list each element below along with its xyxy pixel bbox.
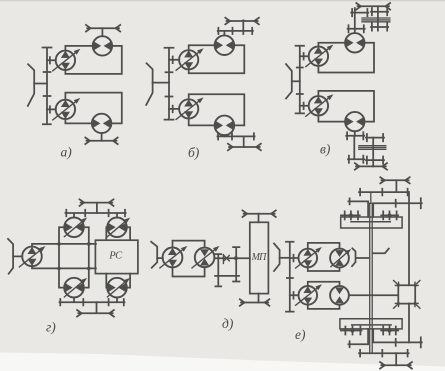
- wire hydraulic loop 1 fig e: [308, 243, 340, 271]
- svg-text:б): б): [188, 145, 200, 160]
- wire motor M1 to final drive fig v: [354, 29, 356, 33]
- gear line 3 (top planetary) fig e: [348, 198, 368, 217]
- svg-text:МП: МП: [251, 252, 268, 263]
- output half-shafts (top) fig b: [225, 18, 259, 25]
- wire input to gear shaft fig a: [34, 83, 47, 85]
- motor M (variable) fig d: [192, 247, 219, 268]
- return line (bottom bus) fig g: [32, 266, 96, 268]
- input coupling fork (engine) fig a: [28, 64, 34, 106]
- wire shaft to pump P2 fig b: [169, 106, 179, 113]
- input coupling fork (engine) fig e: [274, 244, 280, 272]
- motor M1 fig a: [93, 36, 112, 55]
- wire hydraulic loop 1 fig b: [189, 45, 245, 73]
- svg-text:д): д): [222, 316, 234, 331]
- gear shaft (input reduction) fig a: [43, 48, 52, 125]
- planet gear cluster left (top) fig e: [341, 211, 360, 219]
- motor M1 (variable) fig g: [64, 218, 86, 238]
- output half-shafts (bottom) fig e: [380, 362, 412, 369]
- gear reducer (bottom) fig b: [217, 133, 254, 147]
- gear shaft fig b: [165, 48, 174, 120]
- wire motor M2 to flow divider fig g: [106, 227, 130, 240]
- planet gear cluster right (top) fig e: [381, 211, 398, 219]
- output half-shafts (top) fig d: [243, 210, 276, 217]
- output half-shafts (bottom) fig v: [355, 163, 387, 170]
- wire hydraulic loop 2 fig a: [65, 93, 121, 124]
- wire hydraulic loop 1 fig a: [65, 46, 121, 74]
- output half-shafts (top) fig v: [356, 3, 390, 10]
- mechanical gearbox MP fig d: [250, 222, 269, 293]
- wire branches to motor M3 fig g: [59, 268, 89, 287]
- svg-text:е): е): [295, 327, 306, 342]
- gear line 2 (bottom planetary) fig e: [373, 329, 422, 348]
- motor M1 fig b: [215, 35, 235, 55]
- wire shaft to pump P2 fig a: [47, 106, 56, 112]
- axle gears (bottom) fig g: [60, 297, 125, 305]
- wire shaft to pump P1 fig b: [169, 57, 179, 64]
- planet gear cluster left (bottom) fig e: [341, 327, 362, 335]
- wire input to gear shaft fig b: [153, 82, 169, 84]
- final drive gear train (top) fig v: [348, 6, 390, 32]
- svg-text:а): а): [61, 145, 73, 160]
- motor M2 output shaft to clutch fig e: [349, 294, 397, 296]
- pump P (variable) fig g: [19, 247, 44, 267]
- input coupling fork (engine) fig g: [8, 239, 13, 274]
- wire motor M2 to gearbox fig b: [223, 135, 225, 136]
- top scan edge: [0, 0, 445, 1]
- wire hydraulic loop 1 fig v: [318, 43, 374, 73]
- pump P2 (variable) fig b: [176, 98, 203, 119]
- gear shaft fig e: [286, 242, 294, 312]
- wire hydraulic loop 2 fig b: [189, 94, 245, 125]
- wire shaft to pump P1 fig a: [47, 57, 56, 63]
- page bottom white edge: [0, 353, 445, 371]
- wire shaft to pump P1 fig e: [290, 255, 299, 262]
- input coupling fork (engine) fig b: [146, 63, 152, 105]
- final drive gear train (bottom) fig v: [346, 132, 386, 166]
- wire gearbox to bottom output fig d: [258, 294, 260, 303]
- wire hydraulic loop 2 fig v: [318, 91, 374, 122]
- motor M2 fig e: [330, 286, 349, 305]
- gear line 1 (bottom planetary) fig e: [359, 350, 409, 357]
- output half-shafts (bottom) fig g: [77, 302, 114, 316]
- wire input to gear shaft fig e: [280, 257, 290, 259]
- wire shaft to pump P2 fig v: [300, 103, 309, 110]
- wire gear line to bottom output fig e: [395, 353, 397, 365]
- motor M2 (variable) fig g: [107, 218, 129, 238]
- central hollow shaft fig e: [370, 192, 373, 353]
- motor M2 fig b: [215, 116, 235, 136]
- planetary carrier box (top) fig e: [341, 217, 402, 228]
- junction node dots fig g: [57, 242, 90, 270]
- svg-text:РС: РС: [108, 250, 123, 261]
- wire input to pump fig d: [157, 257, 163, 259]
- wire gearbox to top output fig d: [258, 214, 260, 223]
- pump P2 (variable) fig v: [306, 95, 333, 116]
- pump P1 (variable) fig a: [53, 50, 80, 71]
- svg-text:г): г): [46, 320, 56, 335]
- wire motor M1 to gearbox fig b: [223, 31, 225, 36]
- wire motor M1 to output fig a: [101, 28, 103, 36]
- flow divider box RS fig g: [95, 240, 137, 273]
- motor M2 fig v: [345, 112, 364, 131]
- pump P2 (variable) fig e: [296, 285, 321, 305]
- pump P2 (variable) fig a: [53, 99, 80, 120]
- motor output shaft fig d: [214, 257, 249, 259]
- output half-shafts (bottom) fig d: [240, 299, 270, 306]
- gear shaft 2 fig d: [233, 247, 239, 281]
- output half-shafts (bottom) fig b: [228, 144, 261, 151]
- gear shaft 1 fig d: [215, 254, 221, 286]
- input coupling fork (engine) fig v: [286, 64, 292, 98]
- output half-shafts (top) fig g: [80, 199, 114, 213]
- wire branches to motor M1 fig g: [59, 227, 89, 268]
- friction clutch block fig e: [394, 281, 420, 309]
- link to hollow shaft fig e: [373, 249, 389, 254]
- junction node fig d: [234, 256, 238, 260]
- motor M2 fig a: [92, 114, 111, 133]
- gear shaft fig v: [296, 46, 304, 114]
- wire output to gear line 1 fig e: [395, 180, 397, 192]
- right shaft (bottom) fig e: [408, 304, 410, 343]
- planet gear cluster right (bottom) fig e: [381, 327, 398, 335]
- wire motor M2 to output fig a: [101, 133, 103, 141]
- wire input to pump fig g: [13, 255, 22, 257]
- pump P1 (variable) fig b: [176, 49, 203, 70]
- gear reducer (top) fig b: [218, 20, 253, 34]
- gear mesh line fig d: [215, 275, 239, 277]
- output half-shafts (top) fig a: [86, 25, 120, 32]
- axle gears (top) fig g: [65, 210, 125, 218]
- wire motor M2 to final drive fig v: [354, 131, 356, 136]
- wire motor M4 to flow divider fig g: [106, 274, 130, 288]
- svg-text:в): в): [320, 142, 331, 157]
- pump P (variable) fig d: [160, 247, 187, 268]
- friction clutch fig d: [223, 255, 229, 264]
- pump P1 (variable) fig e: [296, 248, 321, 268]
- wire shaft to pump P2 fig e: [290, 292, 299, 299]
- motor M1 fig v: [345, 33, 364, 52]
- output half-shafts (bottom) fig a: [85, 138, 117, 145]
- gear line 2 (top planetary) fig e: [373, 198, 422, 217]
- coupling fork at motor M1 fig e: [352, 248, 369, 266]
- wire hydraulic loop 2 fig e: [308, 282, 340, 309]
- planetary carrier box (bottom) fig e: [340, 319, 402, 329]
- gear line 3 (bottom planetary) fig e: [348, 329, 368, 347]
- output half-shafts (top) fig e: [380, 177, 409, 183]
- supply line (top bus) fig g: [32, 244, 96, 247]
- right shaft (top) fig e: [408, 192, 410, 285]
- motor M1 (variable) fig e: [330, 249, 350, 268]
- input coupling fork (engine) fig d: [151, 242, 157, 268]
- wire shaft to pump P1 fig v: [300, 53, 309, 60]
- motor M3 (variable) fig g: [64, 278, 86, 298]
- gear line 1 (top planetary) fig e: [359, 189, 409, 196]
- pump P1 (variable) fig v: [306, 45, 333, 66]
- motor M4 (variable) fig g: [107, 278, 129, 298]
- wire hydraulic loop fig d: [173, 241, 205, 277]
- wire input to gear shaft fig v: [292, 80, 300, 82]
